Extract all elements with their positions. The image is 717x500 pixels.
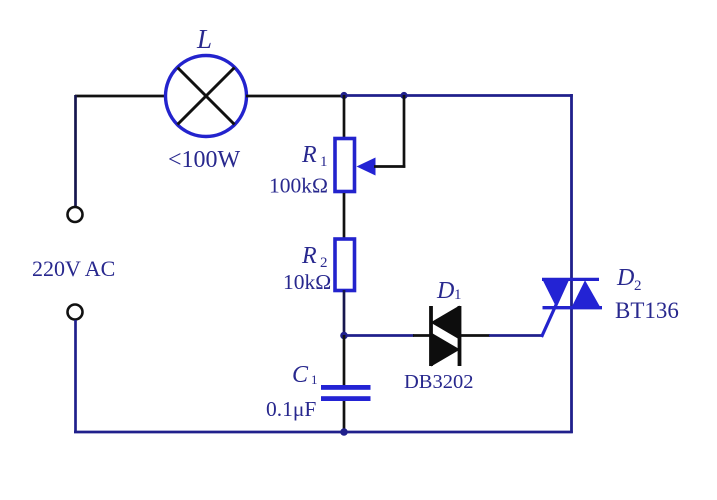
svg-text:D: D [436, 278, 454, 304]
wire: node C down to C1 [343, 335, 346, 386]
wire: diac to gate (navy part) [489, 334, 544, 337]
triac D2: gate lead diagonal [542, 280, 568, 338]
svg-text:R: R [301, 243, 317, 269]
diac D1: left electrode bar [429, 306, 433, 366]
svg-text:220V AC: 220V AC [32, 256, 115, 281]
svg-text:100kΩ: 100kΩ [269, 174, 328, 198]
triac D2: upper terminal bar [542, 278, 599, 281]
wire: left rail upper vertical [74, 95, 77, 207]
svg-text:2: 2 [320, 255, 328, 271]
terminal: lower plug circle [68, 305, 83, 320]
terminal: upper plug circle [68, 207, 83, 222]
capacitor C1 bottom plate [321, 396, 371, 401]
wire: R2 down to node C [343, 290, 346, 336]
svg-text:C: C [292, 362, 309, 388]
lamp L: cross stroke 2 [178, 68, 235, 125]
svg-text:10kΩ: 10kΩ [283, 270, 331, 294]
svg-text:<100W: <100W [168, 147, 241, 173]
wire: left rail lower vertical [74, 320, 77, 433]
wire: node A down to R1 [343, 95, 346, 139]
wire: R1 to R2 [343, 193, 346, 239]
junction node B (wiper return) [400, 92, 407, 99]
wire: lamp right to node A [246, 95, 345, 98]
triac D2: left triangle (points down) [542, 279, 567, 307]
triac D2: right triangle (points up) [571, 280, 601, 308]
potentiometer R1 body [335, 139, 355, 192]
svg-text:1: 1 [454, 287, 462, 303]
diac D1: right electrode bar [458, 306, 462, 366]
potentiometer R1 wiper arrow [357, 158, 376, 176]
triac D2: lower terminal bar [543, 306, 603, 309]
wire: wiper horizontal [374, 165, 405, 168]
capacitor C1 top plate [321, 385, 371, 390]
wire: top rail node A to top-right corner [344, 94, 573, 97]
svg-text:1: 1 [320, 154, 328, 170]
svg-text:BT136: BT136 [615, 298, 679, 323]
wire: diac to gate (black part) [460, 334, 490, 337]
wire: node C to diac (navy part) [344, 334, 414, 337]
junction node D (bottom rail) [340, 428, 348, 436]
svg-text:L: L [196, 24, 212, 54]
svg-text:R: R [301, 142, 317, 168]
diac D1: upper triangle [431, 306, 460, 340]
wire: right rail vertical [570, 94, 573, 433]
wire: top-left horizontal (lamp to left rail) [75, 95, 166, 98]
resistor R2 body [335, 239, 355, 291]
junction node C (RC junction) [340, 332, 348, 340]
diac D1: lower triangle [431, 333, 460, 367]
wire: wiper vertical up to node B [403, 95, 406, 168]
svg-text:0.1μF: 0.1μF [266, 397, 316, 421]
svg-text:1: 1 [311, 372, 318, 387]
lamp L: cross stroke 1 [178, 68, 235, 125]
svg-text:DB3202: DB3202 [404, 371, 473, 393]
wire: bottom rail [74, 431, 573, 434]
wire: C1 to bottom rail [343, 401, 346, 433]
svg-text:D: D [616, 265, 634, 291]
wire: node C to diac (black part) [413, 334, 432, 337]
lamp L: bulb circle [166, 56, 247, 137]
svg-text:2: 2 [634, 278, 642, 294]
junction node A (top of R1 chain) [340, 92, 347, 99]
